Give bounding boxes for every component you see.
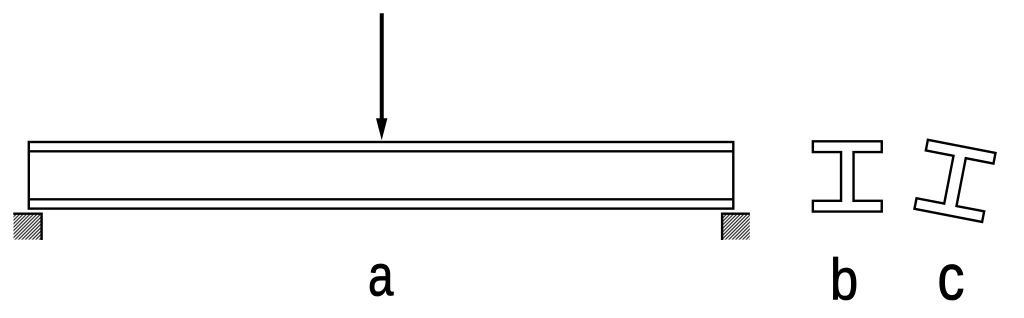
svg-text:c: c	[937, 241, 964, 314]
right support hatch	[722, 214, 750, 240]
svg-text:b: b	[830, 247, 858, 312]
right support top line	[721, 212, 750, 214]
I-section c (rotated)	[914, 140, 995, 222]
force arrow head	[376, 118, 387, 140]
label a	[368, 245, 394, 309]
beam top flange inner line	[29, 150, 734, 152]
left support hatch	[14, 214, 42, 240]
force arrow stem	[380, 13, 384, 121]
svg-text:a: a	[368, 245, 394, 309]
left support top line	[13, 212, 42, 214]
label c	[937, 241, 964, 314]
beam bottom flange inner line	[29, 198, 734, 200]
right support left edge	[721, 213, 723, 241]
label b	[830, 247, 858, 312]
I-section b (upright)	[813, 141, 882, 211]
left support right edge	[40, 213, 42, 241]
beam outline (side view)	[29, 142, 734, 209]
